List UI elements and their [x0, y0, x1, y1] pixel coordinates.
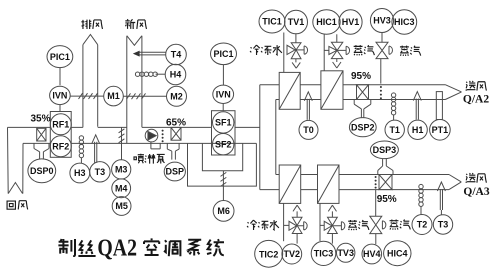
plenum box: [202, 143, 242, 170]
instrument TV1: [285, 10, 308, 34]
svg-text:TIC3: TIC3: [314, 249, 334, 259]
damper 35%: [37, 128, 46, 141]
label 回风 return air: [7, 201, 15, 209]
label 蒸汽 steam lower mid: [348, 220, 357, 230]
svg-text:35%: 35%: [30, 114, 50, 125]
instrument IVN left: [50, 86, 71, 104]
sensor H4: [165, 64, 186, 85]
heat exchanger HX1: [279, 72, 300, 109]
label 蒸汽 steam upper right: [400, 46, 409, 56]
sensor T3: [90, 162, 110, 182]
label 喷淋泵 spray pump: [134, 154, 144, 163]
wire mixing line y127: [71, 126, 260, 128]
wire M6 link: [222, 171, 224, 201]
fan RF2: [50, 136, 71, 157]
sensor probe T0 arrow: [304, 92, 312, 120]
instrument HV3: [370, 9, 393, 33]
label 冷冻水 chilled water upper: [250, 45, 260, 55]
instrument TIC2: [255, 240, 283, 267]
label 新风 fresh air: [125, 19, 135, 29]
valve TV2 three-way: [289, 217, 302, 233]
riser duct inner: [276, 100, 279, 175]
wire return-air lower line: [23, 142, 50, 144]
sensor PT1: [430, 120, 451, 141]
svg-text:DSP3: DSP3: [373, 145, 397, 155]
fan box RF: [50, 112, 71, 158]
svg-text:PIC1: PIC1: [50, 52, 70, 62]
wire return-air top line: [8, 126, 51, 128]
instrument TV2: [282, 244, 302, 264]
actuator M3: [112, 160, 131, 179]
bracket DSP3: [378, 159, 393, 175]
svg-text:IVN: IVN: [216, 89, 231, 99]
svg-text:SF1: SF1: [215, 118, 232, 128]
valve TV3 three-way: [324, 217, 337, 233]
exhaust duct 排风: [83, 35, 98, 128]
svg-text:T1: T1: [389, 125, 400, 135]
svg-text:M4: M4: [115, 183, 128, 193]
fan SF1: [213, 112, 234, 133]
wire PIC1-IVN: [59, 68, 61, 86]
wire TIC2 to HX3: [283, 203, 285, 241]
sensor T1: [385, 120, 404, 139]
svg-text:RF1: RF1: [52, 119, 69, 129]
bracket DSP0 to damper: [34, 143, 49, 159]
svg-text:HV4: HV4: [363, 249, 381, 259]
actuator M2: [167, 86, 187, 106]
wire steam pipe to HV4 valve: [375, 190, 377, 217]
wire TIC3 to HX4: [319, 203, 321, 241]
bracket DSP to damper: [167, 143, 179, 159]
heat exchanger HX2: [321, 71, 343, 110]
sensor T3 lower: [433, 215, 452, 234]
svg-text:T2: T2: [417, 220, 428, 230]
label 送风 supply air upper: [466, 81, 476, 90]
wire IVN-M1 damper link: [70, 95, 103, 97]
sensor probe coil T1: [391, 93, 395, 115]
svg-text:DSP2: DSP2: [351, 122, 375, 132]
svg-text:65%: 65%: [166, 118, 186, 129]
enclosure box: [188, 143, 257, 186]
sensor probe H1 arrow: [413, 92, 421, 120]
instrument PIC1 left: [47, 46, 73, 68]
positioner DSP: [164, 162, 185, 181]
sensor T0: [299, 120, 318, 139]
wire M3 link: [121, 127, 123, 159]
sensor probe T3 arrow: [92, 135, 100, 163]
svg-text:PT1: PT1: [432, 125, 449, 135]
svg-text:M2: M2: [170, 91, 183, 101]
svg-text:IVN: IVN: [52, 91, 67, 101]
label 蒸汽 steam lower right: [390, 219, 399, 229]
svg-text:M3: M3: [115, 165, 128, 175]
heat exchanger HX3: [279, 165, 301, 203]
svg-text:DSP: DSP: [166, 167, 185, 177]
label 冷冻水 chilled water lower: [247, 220, 257, 230]
svg-text:HIC4: HIC4: [387, 248, 408, 258]
svg-text:T4: T4: [171, 50, 182, 60]
hanzi labels: [7, 19, 486, 230]
svg-text:TIC1: TIC1: [262, 17, 282, 27]
svg-text:TV1: TV1: [288, 17, 305, 27]
sensor T4: [166, 44, 187, 65]
svg-text:QA2: QA2: [97, 235, 137, 261]
svg-text:M1: M1: [107, 91, 120, 101]
title 制丝QA2 空调系统: [58, 238, 224, 256]
valve HV1 three-way: [329, 42, 343, 58]
svg-text:H3: H3: [74, 168, 86, 178]
label 蒸汽 steam upper mid: [354, 45, 363, 55]
svg-text:T3: T3: [438, 220, 449, 230]
riser duct outer: [260, 85, 279, 190]
wire IVN-RF1: [59, 105, 61, 112]
svg-text:Q/A2: Q/A2: [463, 94, 489, 106]
svg-text:HIC3: HIC3: [394, 17, 415, 27]
svg-text:95%: 95%: [351, 71, 371, 82]
svg-text:T3: T3: [95, 167, 106, 177]
steam injection dots upper: [380, 86, 382, 99]
wire HIC1 to HX2: [323, 34, 325, 71]
instrument HIC3: [392, 10, 417, 34]
positioner DSP3: [370, 141, 398, 159]
humidifier coil H4: [135, 72, 157, 76]
instrument HIC1: [313, 10, 340, 34]
damper 95% lower: [379, 175, 392, 190]
label 排风 exhaust air: [81, 20, 91, 29]
damper 95% upper: [357, 85, 369, 100]
svg-text:RF2: RF2: [52, 141, 69, 151]
label 送风 supply air lower: [466, 173, 476, 182]
actuator M6: [213, 201, 234, 222]
positioner DSP2: [349, 118, 376, 137]
fan box SF: [212, 111, 236, 155]
sensor H1: [408, 120, 427, 139]
instrument TIC3: [311, 241, 336, 265]
wire IVN-SF: [222, 104, 224, 111]
wire PIC1-IVN right: [222, 65, 224, 86]
fan SF2: [213, 134, 234, 155]
svg-text:H4: H4: [170, 70, 182, 80]
svg-text:M5: M5: [115, 201, 128, 211]
svg-text:SF2: SF2: [215, 139, 232, 149]
svg-text:95%: 95%: [377, 194, 397, 205]
svg-text:M6: M6: [217, 206, 230, 216]
svg-text:HV3: HV3: [373, 16, 391, 26]
sensor probe T3 arrow lower: [437, 182, 445, 210]
damper 65%: [171, 127, 181, 140]
spray pump 喷淋泵: [145, 129, 158, 142]
instrument HIC4: [384, 241, 411, 266]
svg-text:TIC2: TIC2: [259, 249, 279, 259]
valve TV1 three-way: [287, 43, 301, 59]
svg-text:Q/A3: Q/A3: [463, 186, 489, 198]
actuator M4: [112, 179, 131, 198]
actuator M1: [104, 86, 124, 106]
fan RF1: [50, 114, 71, 135]
return air duct 回风: [8, 127, 24, 193]
sensor H3: [70, 163, 90, 183]
bracket DSP2: [354, 100, 371, 118]
sensor probe coil H3: [79, 136, 83, 158]
valve HV4 steam: [370, 216, 382, 233]
sensor probe coil T2: [419, 184, 423, 206]
actuator M5: [112, 197, 131, 216]
svg-text:TV2: TV2: [284, 249, 301, 259]
wire HV1 stem: [336, 34, 338, 42]
svg-text:PIC1: PIC1: [213, 49, 233, 59]
svg-text:T0: T0: [303, 125, 314, 135]
flexible link dots pump: [162, 130, 164, 143]
instrument PIC1 right: [211, 43, 237, 65]
wire M1-M2 damper link: [123, 95, 166, 97]
instrument TV3: [337, 243, 355, 262]
supply duct upper: [300, 85, 461, 100]
heat exchanger HX4: [318, 165, 340, 203]
instrument IVN right: [213, 85, 234, 103]
svg-text:TV3: TV3: [337, 248, 354, 258]
svg-text:HIC1: HIC1: [316, 17, 337, 27]
instrument HV1: [339, 10, 362, 34]
instrument TIC1: [259, 10, 285, 33]
fresh air duct 新风: [127, 36, 142, 144]
wire mixing line y143: [71, 142, 256, 144]
svg-text:DSP0: DSP0: [30, 166, 54, 176]
wire TV1 stem: [295, 34, 297, 43]
sensor probe T4 arrow: [139, 52, 165, 55]
valve HV3 steam: [381, 33, 383, 43]
positioner DSP0: [28, 159, 56, 183]
supply duct lower: [301, 175, 462, 190]
sensor T2: [412, 215, 432, 235]
instrument HV4: [362, 244, 382, 264]
svg-text:HV1: HV1: [342, 17, 360, 27]
sensor probe PT1: [436, 92, 442, 120]
steam injection dots lower: [375, 176, 377, 189]
svg-text:H1: H1: [412, 125, 424, 135]
wire TIC1 to HX1: [283, 33, 285, 73]
